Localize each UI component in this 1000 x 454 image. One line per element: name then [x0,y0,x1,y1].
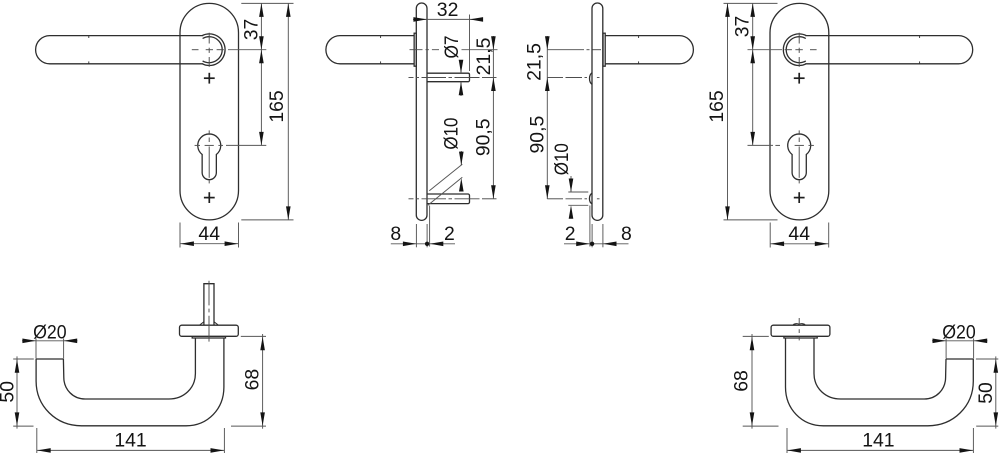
pin 7 centerline [409,77,497,79]
spindle pin 7mm [427,73,470,82]
dimension line 141 [37,449,225,451]
extension lines 68 mirrored [743,336,779,426]
extension lines 2 and 8 mirrored [592,224,603,247]
svg-text:2: 2 [444,223,455,245]
hub outer arc mirrored [783,34,806,66]
arrows dimension 37 chain mirrored [750,3,755,145]
dimension line 37 / handle-to-cylinder [260,3,262,145]
view 6: handle seen from above mirrored (bottom right) [730,318,998,453]
svg-text:141: 141 [114,429,146,451]
pin 7 flush stub [590,73,593,85]
extension line 32 right [469,15,471,72]
extension line handle centre mirrored [748,49,783,51]
extension line plate bottom mirrored [724,219,778,221]
svg-text:44: 44 [198,223,220,245]
diameter 10 extension lines mirrored [568,192,588,205]
lever tangent ticks side [380,36,382,64]
extension line plate top mirrored [724,2,778,4]
pin 10 flush stub [589,193,592,204]
label 21,5 [473,38,495,76]
arrows diameter 20 [22,339,77,344]
view 5: handle seen from above (bottom left) [0,281,266,453]
svg-text:21,5: 21,5 [473,38,495,76]
dimension line 50 [16,356,18,428]
handle U outline inner [63,338,195,399]
extension lines 50 mirrored [976,359,998,426]
diameter 10 oblique extension lines [428,164,462,205]
rose flange plate mirrored [771,325,830,336]
lever tangent ticks mirrored [638,36,640,64]
lever centerline mirrored [547,49,601,51]
view 1: front view of lever handle on short plate (left) [36,3,294,247]
lever centerline side [410,49,440,51]
label 32 [437,0,459,21]
label 141 mirrored [862,429,894,451]
dimension line 68 [262,334,264,429]
extension lines 50 [13,359,34,426]
label 44 [198,223,220,245]
dimension line 165 [287,3,289,220]
handle U outline inner mirrored [814,338,946,399]
arrows dimension 32 [413,17,483,22]
spindle square rod [204,284,214,325]
dimension line 68 mirrored [751,334,753,429]
extension lines diameter 20 [36,338,64,358]
grip tangent ticks mirrored [919,36,921,64]
arrows 2 and 8 with shared dot mirrored [576,242,616,247]
extension line cylinder centre [226,144,266,146]
gasket line 2mm mirrored [589,206,591,247]
label 37 mirrored [731,16,753,38]
svg-text:50: 50 [0,381,19,403]
plate side profile [416,3,427,220]
socket centerline [798,318,800,340]
dimension line 2 and 8 mirrored [564,243,629,245]
svg-text:90,5: 90,5 [527,116,549,154]
hub centerline horizontal [192,49,224,51]
svg-text:Ø7: Ø7 [441,36,463,59]
svg-text:Ø20: Ø20 [942,321,976,343]
label 50 [0,381,19,403]
svg-text:165: 165 [706,90,728,122]
extension line cylinder centre mirrored [748,144,774,146]
svg-text:Ø20: Ø20 [33,321,67,343]
arrows 141 mirrored [787,448,973,453]
hub centerline horizontal mirrored [785,49,817,51]
grip end face [36,358,63,360]
svg-text:141: 141 [862,429,894,451]
cylinder centerline vertical mirrored [798,130,800,183]
grip end face mirrored [946,358,973,360]
label 141 [114,429,146,451]
dimension line 141 mirrored [787,449,973,451]
dimension line 21,5 and 90,5 mirrored [546,36,548,199]
screw mark + lower mirrored [794,192,805,203]
label 165 [266,90,288,122]
svg-text:8: 8 [621,223,632,245]
view 3: side profile opposite side (right-middle) [524,3,694,247]
screw pin 10mm [427,194,470,204]
label 165 mirrored [706,90,728,122]
label 8 [390,223,401,245]
hub flange side [414,33,416,66]
arrows 68 mirrored [750,337,755,426]
dimension line 8 and 2 [391,243,455,245]
screw mark + upper [204,73,215,84]
arrows 141 [37,448,224,453]
view 2: side profile with spindle pins (left-middle) [326,0,498,247]
spindle socket bump [793,324,806,326]
label 21,5 mirrored [524,43,546,81]
dimension line 44 [180,243,239,245]
dimension line diameter 20 mirrored [932,340,988,342]
handle U outline outer [36,338,224,426]
svg-text:37: 37 [240,19,262,41]
pin 10 centerline mirrored [547,198,599,200]
svg-text:50: 50 [975,382,997,404]
arrows diameter 10 mirrored [569,179,574,219]
label 2 mirrored [565,223,576,245]
extension lines 68 [231,336,266,426]
svg-text:Ø10: Ø10 [551,143,573,175]
hub inner arc [203,37,223,63]
arrows diameter 20 mirrored [933,339,988,344]
pin 7 centerline mirrored [547,77,599,79]
cylinder centerline horizontal [195,144,223,146]
extension line plate top [241,2,293,4]
diameter 10 leader mirrored [570,176,572,192]
cylinder centerline horizontal mirrored [775,144,814,146]
lever side profile [326,36,414,64]
arrows 68 [260,337,265,426]
arrows dimension 165 [286,3,291,220]
label 44 mirrored [788,223,810,245]
lever grip (horizontal bar with rounded end) [36,36,204,64]
label diameter 10 mirrored [551,143,573,175]
label diameter 20 mirrored [942,321,976,343]
extension lines 141 [37,428,225,453]
svg-text:Ø10: Ø10 [441,117,463,149]
lever grip mirrored [805,36,972,64]
label 68 [241,369,263,391]
label 90,5 [472,118,494,156]
extension lines 8 and 2 [416,224,427,247]
lever side profile mirrored [605,36,693,64]
euro profile cylinder hole [198,134,221,180]
arrows dimension 37 chain [259,3,264,145]
plate outline (44x165 oval plate) [180,3,239,220]
plate side profile mirrored [592,3,603,220]
rose flange plate [180,325,239,336]
spindle centerline [208,281,210,342]
svg-text:165: 165 [266,90,288,122]
hub flange side mirrored [603,33,605,66]
dimension line 50 mirrored [995,356,997,428]
label 2 [444,223,455,245]
svg-text:68: 68 [241,369,263,391]
svg-text:8: 8 [390,223,401,245]
arrows 50 [15,359,20,426]
extension lines 44 mirrored [770,223,829,248]
grip tangent ticks [88,36,90,64]
svg-text:32: 32 [437,0,459,21]
svg-text:37: 37 [731,16,753,38]
arrows dimension 44 mirrored [771,242,829,247]
diameter 7 leader line [460,60,462,96]
hub inner arc mirrored [786,37,806,63]
label diameter 10 [441,117,463,149]
dimension line 44 mirrored [770,243,829,245]
screw mark + upper mirrored [794,73,805,84]
arrows 8 and 2 with shared dot [403,242,443,247]
label 68 mirrored [730,370,752,392]
hub centerline vertical [208,33,210,67]
plate outline mirrored [770,3,829,220]
svg-text:90,5: 90,5 [472,118,494,156]
arrows 21,5 and 90,5 [491,36,496,199]
arrows 50 mirrored [994,359,999,426]
dimension line 165 mirrored [727,3,729,220]
label 90,5 mirrored [527,116,549,154]
arrows diameter 7 [459,60,464,95]
hub collar [192,336,225,338]
view 4: front view mirrored (right) [706,3,973,247]
label diameter 7 [441,36,463,59]
svg-text:21,5: 21,5 [524,43,546,81]
hub centerline vertical mirrored [798,33,800,67]
svg-text:68: 68 [730,370,752,392]
label 37 [240,19,262,41]
hub outer arc [202,34,225,66]
label diameter 20 [33,321,67,343]
dimension line 37 chain mirrored [752,3,754,145]
handle U outline outer mirrored [786,338,974,426]
dimension line 21,5 and 90,5 [492,36,494,199]
arrows dimension 165 mirrored [725,3,730,220]
pin 10 centerline [409,198,497,200]
svg-text:44: 44 [788,223,810,245]
dimension line 32 [413,18,483,20]
dimension line diameter 20 [22,340,78,342]
arrows dimension 44 [180,241,238,246]
extension line handle centre [228,49,266,51]
hub collar mirrored [784,336,817,338]
diameter 10 leader [460,151,462,165]
screw mark + lower [204,192,215,203]
arrows 21,5 and 90,5 mirrored [545,36,550,199]
label 8 mirrored [621,223,632,245]
arrows diameter 10 [459,152,464,192]
svg-text:2: 2 [565,223,576,245]
gasket line 2mm [429,206,431,247]
extension line plate bottom [241,219,293,221]
euro profile cylinder hole mirrored [788,134,811,180]
extension lines 141 mirrored [787,428,973,453]
extension lines 44 [180,223,239,248]
label 50 mirrored [975,382,997,404]
cylinder centerline vertical [208,130,210,183]
extension lines diameter 20 mirrored [946,338,974,358]
spindle base flare [200,322,218,325]
